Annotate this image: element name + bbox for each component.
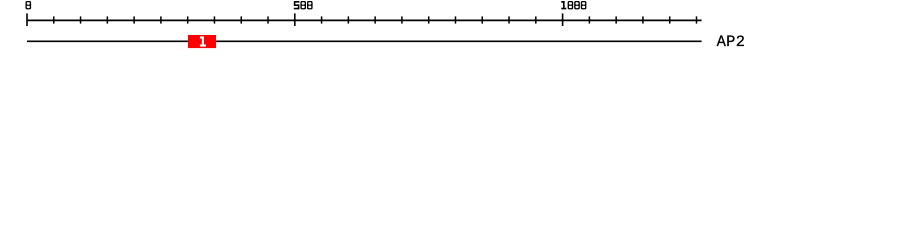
minor tick 650 [374,16,376,23]
minor tick 200 [133,16,135,23]
minor tick 850 [481,16,483,23]
minor tick 750 [428,16,430,23]
minor tick 400 [240,16,242,23]
minor tick 100 [80,16,82,23]
major tick 1000 [562,13,564,26]
minor tick 1050 [588,16,590,23]
minor tick 350 [213,16,215,23]
feature track line [27,40,702,42]
minor tick 300 [187,16,189,23]
exon 1 box (red) [188,35,216,48]
svg-text:AP2: AP2 [717,33,746,51]
minor tick 700 [401,16,403,23]
minor tick 1150 [642,16,644,23]
minor tick 1100 [615,16,617,23]
minor tick 450 [267,16,269,23]
tick label 1000 [561,1,586,9]
minor tick 550 [321,16,323,23]
tick label 500 [294,1,313,9]
minor tick 150 [106,16,108,23]
minor tick 1200 [669,16,671,23]
tick label 0 [26,1,32,9]
exon 1 label [200,36,206,46]
minor tick 50 [53,16,55,23]
ruler axis line [27,19,702,21]
minor tick 250 [160,16,162,23]
major tick 0 [26,13,28,26]
major tick 500 [294,13,296,26]
minor tick 900 [508,16,510,23]
minor tick 950 [535,16,537,23]
minor tick 800 [454,16,456,23]
minor tick 1250 [696,16,698,23]
gene label AP2 [717,33,746,51]
minor tick 600 [347,16,349,23]
